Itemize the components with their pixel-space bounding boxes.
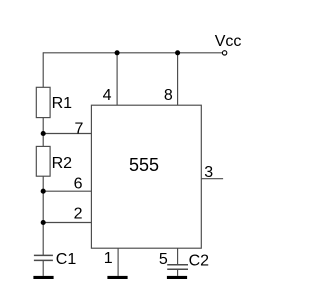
svg-text:1: 1 <box>104 250 113 267</box>
junction node: pin 7 / rail <box>41 131 46 136</box>
junction node: top rail / pin 4 <box>115 50 120 55</box>
svg-text:R2: R2 <box>52 155 73 172</box>
wire: R1 bottom to R2 top (through node pin7) <box>42 118 44 147</box>
wire: pin 1 to ground <box>117 248 119 276</box>
wire: R2 bottom to C1 top (through nodes pin6, pin2) <box>42 176 44 255</box>
svg-text:4: 4 <box>103 87 112 104</box>
wire: pin 7 horizontal <box>43 133 91 135</box>
ground symbol under pin 1 <box>107 276 127 279</box>
junction node: top rail / pin 8 <box>175 50 180 55</box>
svg-text:6: 6 <box>74 175 83 192</box>
wire: C2 bottom to ground <box>177 269 179 276</box>
wire: pin 8 vertical <box>177 53 179 105</box>
svg-text:8: 8 <box>164 87 173 104</box>
wire: pin 2 horizontal <box>43 222 91 224</box>
wire: C1 bottom to ground <box>42 260 44 276</box>
wire: left rail top segment to R1 <box>42 52 44 87</box>
svg-text:2: 2 <box>74 205 83 222</box>
svg-text:5: 5 <box>159 251 168 268</box>
junction node: pin 6 / rail <box>41 189 46 194</box>
wire: pin 4 vertical <box>116 53 118 105</box>
svg-text:3: 3 <box>204 164 213 181</box>
wire: pin 5 to C2 <box>177 248 179 265</box>
ground symbol under C2 <box>167 276 187 279</box>
terminal: Vcc open circle <box>222 51 226 55</box>
resistor R1 body <box>36 87 50 117</box>
resistor R2 body <box>36 146 50 176</box>
svg-text:C2: C2 <box>189 252 210 269</box>
capacitor C2 plates <box>167 265 188 270</box>
wire: pin 3 output stub <box>201 178 223 180</box>
svg-text:Vcc: Vcc <box>215 33 242 50</box>
wire: pin 6 horizontal <box>43 190 91 192</box>
wire: top supply rail horizontal <box>43 52 222 54</box>
capacitor C1 plates <box>34 255 53 260</box>
junction node: pin 2 / rail <box>41 220 46 225</box>
svg-text:R1: R1 <box>52 95 73 112</box>
svg-text:7: 7 <box>74 120 83 137</box>
svg-text:C1: C1 <box>56 251 77 268</box>
op: IC 555 timer U1 body <box>91 105 201 248</box>
ground symbol under C1 <box>33 276 53 279</box>
svg-text:555: 555 <box>129 155 159 175</box>
